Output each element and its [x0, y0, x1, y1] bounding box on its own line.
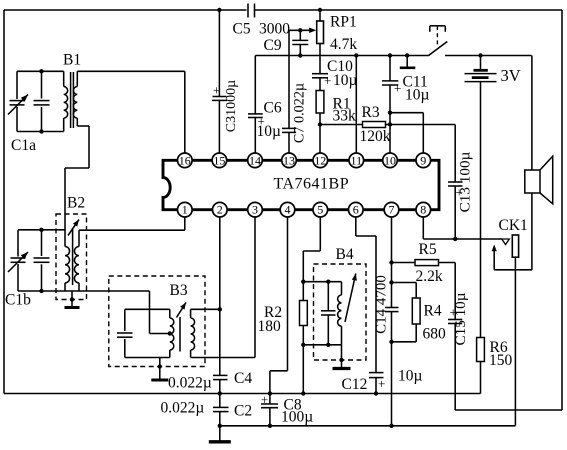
svg-text:2: 2 [217, 203, 223, 217]
svg-text:C14 4700: C14 4700 [374, 275, 390, 334]
svg-text:10µ: 10µ [398, 368, 423, 385]
svg-text:R4: R4 [424, 303, 442, 320]
svg-text:+: + [450, 305, 457, 320]
svg-text:+: + [261, 392, 268, 407]
svg-text:C13 100µ: C13 100µ [457, 151, 474, 212]
svg-text:C2: C2 [234, 403, 252, 420]
svg-text:R5: R5 [419, 241, 437, 258]
svg-text:C12: C12 [342, 376, 368, 393]
svg-text:1: 1 [182, 203, 188, 217]
svg-text:6: 6 [353, 203, 359, 217]
svg-text:13: 13 [283, 153, 295, 167]
svg-text:C1a: C1a [11, 137, 36, 154]
svg-text:B3: B3 [170, 282, 188, 299]
svg-text:150: 150 [489, 352, 513, 369]
svg-text:B2: B2 [67, 195, 85, 212]
svg-text:+: + [324, 73, 331, 88]
svg-text:10: 10 [384, 153, 396, 167]
svg-text:180: 180 [258, 318, 282, 335]
svg-text:9: 9 [420, 153, 426, 167]
svg-text:+: + [213, 83, 220, 98]
svg-text:4.7k: 4.7k [330, 36, 357, 53]
svg-text:B4: B4 [336, 246, 354, 263]
svg-text:RP1: RP1 [330, 14, 357, 31]
svg-text:10µ: 10µ [405, 87, 430, 104]
svg-text:5: 5 [317, 203, 323, 217]
svg-text:3000: 3000 [259, 21, 290, 38]
svg-text:C4: C4 [234, 370, 252, 387]
svg-text:+: + [456, 185, 463, 200]
svg-text:+: + [378, 376, 385, 391]
svg-text:11: 11 [351, 153, 363, 167]
svg-text:0.022µ: 0.022µ [168, 375, 212, 392]
svg-text:33k: 33k [333, 108, 357, 125]
svg-text:TA7641BP: TA7641BP [274, 176, 350, 193]
svg-text:C9: C9 [264, 37, 282, 54]
svg-text:120k: 120k [360, 128, 391, 145]
svg-text:CK1: CK1 [499, 217, 528, 234]
svg-text:14: 14 [249, 153, 261, 167]
svg-text:C6: C6 [264, 100, 282, 117]
svg-text:4: 4 [285, 203, 291, 217]
svg-text:+: + [258, 114, 265, 129]
svg-text:100µ: 100µ [281, 409, 313, 426]
svg-text:C7 0.022µ: C7 0.022µ [291, 83, 307, 143]
svg-text:C31000µ: C31000µ [224, 80, 239, 132]
svg-text:C5: C5 [233, 21, 251, 38]
svg-text:10µ: 10µ [333, 72, 358, 89]
svg-text:0.022µ: 0.022µ [161, 400, 205, 417]
svg-text:3: 3 [252, 203, 258, 217]
svg-text:16: 16 [179, 153, 191, 167]
svg-text:2.2k: 2.2k [416, 268, 443, 285]
svg-text:3V: 3V [501, 66, 521, 85]
svg-text:B1: B1 [63, 52, 81, 69]
svg-text:12: 12 [314, 153, 326, 167]
svg-text:8: 8 [420, 203, 426, 217]
svg-text:C1b: C1b [5, 292, 31, 309]
svg-text:R3: R3 [362, 104, 380, 121]
svg-text:15: 15 [213, 153, 225, 167]
svg-text:+: + [394, 81, 401, 96]
svg-text:680: 680 [423, 326, 447, 343]
svg-text:7: 7 [389, 203, 395, 217]
